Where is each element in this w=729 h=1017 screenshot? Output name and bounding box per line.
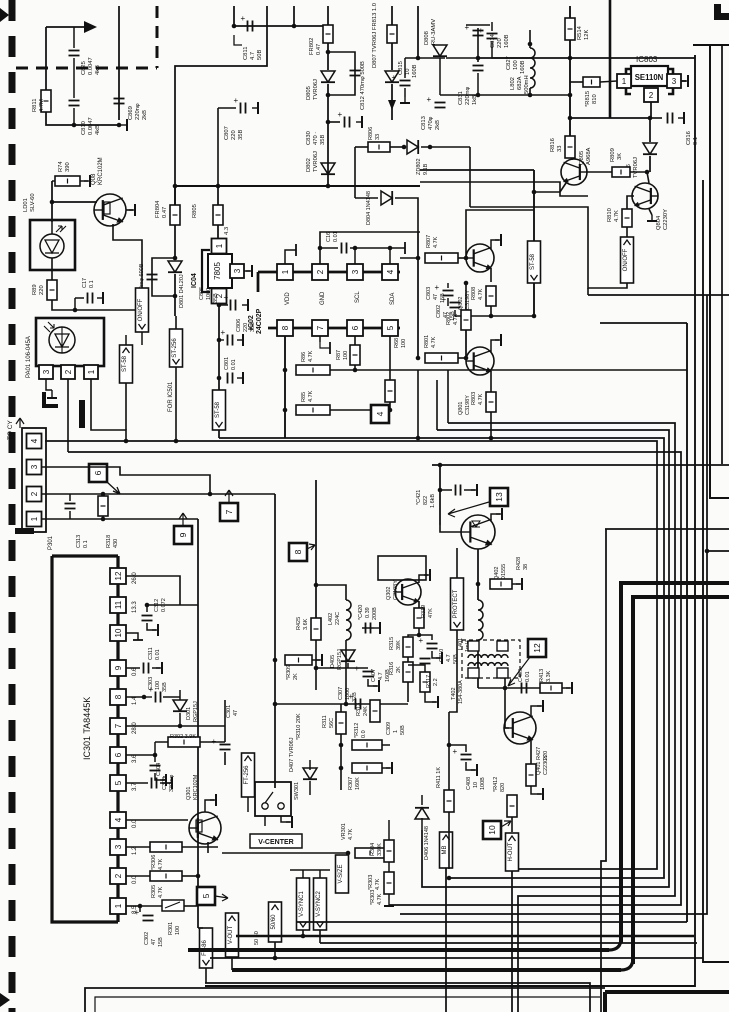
svg-text:100: 100 [513, 60, 519, 70]
wire [391, 43, 393, 70]
svg-text:V-CENTER: V-CENTER [258, 839, 293, 846]
svg-text:R315: R315 [389, 637, 395, 650]
ground [537, 700, 543, 712]
svg-text:*R306: *R306 [151, 855, 157, 870]
capacitor C802 [442, 295, 461, 308]
wire [354, 365, 356, 370]
svg-text:0.1: 0.1 [693, 137, 699, 145]
bus y983 [205, 983, 590, 1012]
wire [182, 846, 218, 848]
svg-text:10: 10 [405, 69, 411, 75]
svg-text:50/60: 50/60 [271, 914, 277, 930]
wire [529, 30, 531, 48]
IC301 pin 10 [110, 625, 126, 641]
svg-text:1: 1 [622, 77, 627, 86]
IC301 pin 4 [110, 812, 126, 828]
wire R802 bottom [465, 330, 467, 358]
svg-text:+: + [392, 73, 397, 82]
svg-text:12K: 12K [584, 30, 590, 40]
ground [400, 97, 410, 103]
svg-text:R86: R86 [301, 352, 307, 362]
ground [286, 816, 292, 828]
wire pin3 stub [681, 80, 686, 82]
bottom block outline [85, 988, 605, 1012]
junction [117, 123, 122, 128]
wire [152, 667, 160, 669]
svg-text:R89: R89 [32, 284, 38, 295]
wire [389, 402, 391, 410]
ground [160, 774, 166, 786]
arrow tag8 [307, 544, 315, 550]
wire [458, 257, 466, 259]
wire x449 [448, 712, 450, 790]
svg-text:3: 3 [30, 464, 39, 469]
svg-text:1000: 1000 [345, 688, 351, 700]
ground [246, 265, 252, 277]
tag ST-58 [120, 345, 133, 383]
svg-text:50B: 50B [400, 725, 406, 735]
IC04 pin 1 [212, 239, 227, 254]
svg-text:C810: C810 [81, 121, 87, 135]
wire [400, 257, 418, 259]
ground [384, 900, 394, 906]
svg-text:330K: 330K [377, 843, 383, 856]
capacitor C408 [453, 747, 472, 760]
capacitor C827 [479, 26, 498, 39]
svg-text:4kB: 4kB [95, 125, 101, 135]
wire [319, 248, 321, 264]
junction [174, 439, 179, 444]
wire [382, 744, 390, 746]
svg-text:32B: 32B [352, 692, 358, 702]
wire [319, 336, 321, 342]
wire [345, 655, 347, 704]
wire [219, 339, 224, 341]
transistor Q402 [461, 515, 495, 549]
svg-text:*C421: *C421 [416, 490, 422, 505]
svg-text:R514: R514 [577, 25, 583, 40]
svg-text:7: 7 [114, 723, 123, 728]
bus line 1 [448, 423, 675, 1012]
capacitor C801 [228, 373, 233, 384]
wire y323 [600, 322, 687, 324]
IC803 pin 2 [644, 88, 658, 102]
wire [388, 894, 390, 900]
ground [252, 102, 258, 114]
PA01 pin 3 [39, 365, 53, 379]
svg-text:R87: R87 [336, 350, 342, 360]
svg-text:0.01: 0.01 [333, 231, 339, 242]
wire PROTECT down [449, 630, 457, 712]
wire [408, 635, 419, 637]
capacitor C825 [69, 51, 80, 56]
svg-text:15B: 15B [440, 293, 446, 303]
wire C810 bottom [73, 108, 75, 125]
svg-text:R816: R816 [550, 138, 556, 152]
junction [138, 904, 143, 909]
wire [419, 635, 432, 640]
svg-text:C825: C825 [81, 61, 87, 75]
svg-text:0.01: 0.01 [525, 671, 531, 682]
tag PROTECT [451, 578, 464, 630]
stub [571, 159, 573, 160]
svg-text:1000: 1000 [206, 288, 212, 300]
ground [495, 334, 501, 346]
svg-text:C831: C831 [458, 91, 464, 105]
wire [530, 752, 532, 764]
svg-text:200B: 200B [372, 607, 378, 620]
resistor R88 [385, 380, 395, 402]
svg-text:L802: L802 [510, 77, 516, 90]
resistor R317 [420, 672, 430, 692]
resistor R816 [565, 136, 575, 158]
junction [510, 867, 515, 872]
junction [101, 492, 106, 497]
wire [391, 6, 393, 25]
svg-text:D301: D301 [186, 707, 192, 720]
svg-text:38: 38 [523, 564, 529, 570]
svg-text:1: 1 [281, 269, 290, 274]
wire [388, 862, 390, 872]
frame line inner [710, 45, 729, 498]
tag V-SYNC2 [314, 878, 327, 930]
svg-text:154-380A: 154-380A [458, 680, 464, 704]
wire [454, 310, 456, 316]
svg-text:C816: C816 [686, 131, 692, 145]
junction [532, 190, 537, 195]
wire [417, 290, 419, 358]
svg-text:PROTECT: PROTECT [453, 589, 459, 618]
tag 4 [371, 405, 389, 423]
svg-text:R810: R810 [607, 208, 613, 222]
IC803 pin 3 [667, 74, 681, 88]
svg-text:35B: 35B [250, 322, 256, 332]
svg-text:VR301: VR301 [341, 823, 347, 840]
wire [626, 227, 628, 238]
tag 5 [197, 887, 215, 905]
wire [69, 494, 71, 501]
svg-text:47: 47 [233, 710, 239, 716]
svg-text:8: 8 [114, 694, 123, 699]
arrowhead D807 [388, 100, 396, 110]
wire C869 vertical [118, 6, 120, 120]
wire x275 long [274, 494, 276, 788]
wire [477, 28, 479, 62]
wire [531, 706, 541, 716]
bus line 2 [422, 430, 669, 887]
ground pin3 [682, 75, 688, 87]
svg-text:2K: 2K [293, 673, 299, 680]
wire [368, 679, 377, 686]
svg-text:0.0: 0.0 [361, 730, 367, 738]
svg-text:ON/OFF: ON/OFF [138, 298, 144, 321]
svg-text:A968A: A968A [586, 147, 592, 165]
svg-text:470φ: 470φ [428, 116, 434, 130]
svg-text:D804 1N4148: D804 1N4148 [366, 191, 372, 225]
wire [51, 181, 53, 222]
wire [530, 740, 532, 752]
wire [405, 57, 445, 59]
svg-text:160K: 160K [355, 777, 361, 790]
svg-text:220: 220 [231, 130, 237, 140]
svg-text:C407: C407 [371, 669, 377, 682]
svg-text:R413: R413 [539, 669, 545, 682]
wire [421, 818, 423, 830]
svg-text:2kB: 2kB [142, 110, 148, 120]
wire [217, 186, 219, 205]
wire 50/60 drop [274, 942, 276, 958]
wire pin6 [126, 754, 155, 756]
svg-text:+: + [221, 328, 226, 337]
svg-text:56C: 56C [329, 718, 335, 728]
svg-text:C815: C815 [398, 61, 404, 75]
junction [326, 50, 331, 55]
junction [476, 93, 481, 98]
wire [491, 22, 493, 31]
svg-text:GND: GND [320, 291, 326, 305]
IC301 pin 6 [110, 747, 126, 763]
wire y688 [478, 687, 540, 689]
svg-text:822: 822 [423, 496, 429, 505]
svg-text:ON/OFF: ON/OFF [623, 248, 629, 271]
wire [418, 601, 420, 608]
transistor Q802 [466, 244, 494, 272]
resistor FR804 [170, 205, 180, 225]
svg-text:C301: C301 [226, 705, 232, 718]
wire [174, 225, 176, 258]
svg-text:13: 13 [494, 492, 504, 502]
tag 7 [220, 503, 238, 521]
wire [449, 745, 466, 752]
svg-text:FR802: FR802 [309, 38, 315, 55]
resistor R810 [622, 209, 632, 227]
arrow tag13 [448, 502, 489, 517]
svg-text:R68: R68 [394, 338, 400, 348]
wire pin2 [126, 875, 150, 877]
svg-text:*R412: *R412 [493, 777, 499, 792]
svg-text:+: + [479, 26, 484, 35]
IC04 body 7805 [208, 254, 232, 288]
junction [318, 246, 323, 251]
wire R86 right [330, 369, 687, 371]
svg-text:P301: P301 [48, 535, 54, 550]
svg-text:R428: R428 [516, 557, 522, 570]
Q301 internal res [196, 820, 202, 832]
svg-text:R311: R311 [322, 715, 328, 728]
wire [418, 628, 420, 635]
svg-text:C408: C408 [466, 777, 472, 790]
svg-text:4: 4 [375, 411, 385, 416]
junction [489, 436, 494, 441]
junction [416, 256, 421, 261]
wire [175, 316, 177, 329]
wire [490, 412, 492, 438]
wire Q402 base [440, 525, 461, 532]
svg-text:R301: R301 [168, 922, 174, 935]
wire y58 to frame [478, 57, 695, 59]
svg-text:R304: R304 [370, 843, 376, 856]
wire [51, 222, 53, 234]
wire [200, 741, 225, 743]
svg-text:7: 7 [224, 509, 234, 514]
svg-text:4.7K: 4.7K [308, 390, 314, 402]
wire [355, 247, 390, 249]
wire [154, 755, 156, 762]
bus y922 [296, 921, 687, 923]
label V-CENTER [250, 834, 302, 848]
svg-text:C869: C869 [128, 106, 134, 120]
IC02 pin 2 [312, 264, 328, 280]
svg-text:*C420: *C420 [358, 605, 364, 620]
svg-text:100: 100 [175, 926, 181, 935]
svg-text:8: 8 [293, 549, 303, 554]
wire emitter [649, 209, 652, 215]
capacitor C308 [150, 766, 161, 771]
diode D802 [321, 163, 335, 174]
resistor R303b [384, 872, 394, 894]
junction [273, 702, 278, 707]
svg-text:KRC102M: KRC102M [193, 774, 199, 800]
svg-text:R305: R305 [151, 885, 157, 898]
svg-text:6: 6 [351, 325, 360, 330]
wire [52, 180, 55, 182]
svg-text:224C: 224C [335, 612, 341, 625]
junction [217, 338, 222, 343]
svg-text:47: 47 [433, 294, 439, 300]
junction [503, 686, 508, 691]
resistor FR813 [387, 25, 397, 43]
svg-text:28.0: 28.0 [132, 722, 138, 734]
svg-text:R319: R319 [421, 605, 427, 618]
wire x606 jog [601, 529, 606, 1012]
junction [464, 356, 469, 361]
tag 8 [289, 543, 307, 561]
svg-text:T402: T402 [451, 687, 457, 700]
tag V-SYNC1 [297, 878, 310, 930]
wire D405 to node [347, 663, 349, 668]
resistor R807 [425, 253, 458, 263]
thick bottom wire [605, 990, 729, 994]
bus pin3 [42, 467, 210, 494]
thick wire B run [232, 968, 621, 972]
wire [340, 734, 342, 745]
svg-text:C812 470mφ 500B: C812 470mφ 500B [360, 61, 366, 110]
svg-text:D801 D4L20J: D801 D4L20J [179, 274, 185, 308]
IC301 body [52, 556, 118, 922]
resistor R315 [403, 637, 413, 657]
thick bottom stub [603, 992, 607, 1012]
resistor R514 [565, 18, 575, 40]
wire [184, 905, 198, 907]
svg-text:C2230Y: C2230Y [663, 209, 669, 230]
wire V-SYNC2 drop [319, 930, 321, 943]
svg-text:4.7K: 4.7K [431, 336, 437, 348]
wire [421, 146, 470, 148]
tag 6 [89, 464, 107, 482]
wire [465, 283, 467, 310]
wire y704 [275, 703, 408, 705]
svg-text:FT-86: FT-86 [202, 940, 208, 956]
IC301 pin 12 [110, 568, 126, 584]
svg-text:0.39: 0.39 [365, 607, 371, 618]
wire y118 [570, 117, 650, 119]
wire top [320, 232, 420, 248]
wire to FR804 [175, 6, 267, 205]
ground [84, 175, 90, 187]
capacitor C313 [65, 504, 76, 509]
resistor VR301 [355, 848, 385, 858]
svg-text:+: + [355, 664, 360, 673]
svg-text:11: 11 [114, 600, 123, 609]
junction [196, 874, 201, 879]
thick wire B [633, 597, 729, 964]
ground [129, 204, 135, 216]
arrow tag5 [215, 894, 228, 901]
svg-text:FOR IC501: FOR IC501 [168, 381, 174, 412]
ground [356, 116, 362, 128]
IC02 pin 1 [277, 264, 293, 280]
wire pin5 [126, 782, 148, 784]
svg-text:SDA: SDA [390, 293, 396, 305]
svg-text:47K: 47K [428, 608, 434, 618]
junction [568, 116, 573, 121]
capacitor C307 [349, 692, 361, 710]
capacitor C807 [234, 96, 246, 114]
Q08 internal resistor [104, 202, 110, 214]
wire [340, 704, 342, 712]
junction [217, 303, 222, 308]
junction [344, 702, 349, 707]
bus y943 [320, 942, 697, 944]
svg-text:100: 100 [401, 339, 407, 348]
svg-text:ST-58: ST-58 [530, 253, 536, 270]
ground [166, 777, 172, 789]
wire C807 [218, 107, 236, 109]
tag ON/OFF [621, 237, 634, 283]
wire y295 [588, 294, 729, 296]
wire node [440, 94, 530, 96]
junction [173, 256, 178, 261]
wire bus left end [257, 272, 260, 292]
ground [471, 484, 477, 496]
junction [208, 492, 213, 497]
wire [69, 511, 71, 519]
svg-text:4.7K: 4.7K [348, 828, 354, 840]
wire [80, 180, 88, 182]
P301 pin 1 [27, 512, 42, 527]
transformer T402 winding a [468, 655, 508, 658]
wire R815 right [600, 81, 617, 82]
wire C812 branch [328, 52, 355, 95]
bus y958 [210, 957, 703, 959]
wire [290, 869, 330, 871]
tag H-OUT [506, 833, 519, 871]
tag 50/60 [269, 902, 282, 942]
svg-text:R425: R425 [296, 617, 302, 630]
wire [407, 682, 409, 702]
svg-text:D1555: D1555 [501, 564, 507, 580]
wire [355, 197, 378, 199]
svg-text:0.1: 0.1 [83, 540, 89, 548]
junction [339, 743, 344, 748]
svg-text:1: 1 [393, 730, 399, 733]
wire [75, 297, 84, 299]
wire [649, 156, 651, 172]
wire [174, 274, 176, 296]
resistor R316 [403, 662, 413, 682]
wire x722 [721, 45, 723, 464]
capacitor C303 [149, 685, 161, 703]
